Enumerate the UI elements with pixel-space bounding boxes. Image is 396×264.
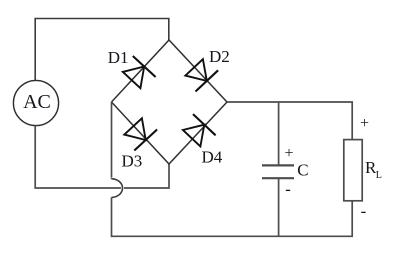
wire RL bottom: [351, 201, 353, 237]
wire left vertex down (lower part): [111, 197, 113, 237]
wire top from AC to bridge top: [35, 19, 169, 81]
resistor RL body: [344, 140, 362, 201]
svg-text:D2: D2: [209, 47, 230, 66]
wire capacitor bottom branch: [278, 178, 280, 236]
svg-text:-: -: [361, 202, 367, 221]
wire capacitor top branch: [278, 102, 280, 165]
wire bridge right vertex to RL top: [227, 102, 352, 140]
svg-text:D3: D3: [122, 152, 143, 171]
diode D4: [183, 114, 216, 146]
svg-text:D4: D4: [202, 148, 223, 167]
svg-text:AC: AC: [23, 91, 51, 113]
wire left vertex down (upper part): [111, 102, 113, 179]
svg-text:-: -: [285, 180, 291, 199]
svg-text:+: +: [360, 115, 369, 132]
diode D2: [185, 59, 218, 91]
wire bottom bus: [111, 235, 353, 237]
diode D3: [124, 118, 157, 150]
diode D1: [123, 56, 156, 88]
bridge diamond wires: [112, 40, 228, 164]
AC source U1: [13, 80, 58, 125]
capacitor C plates: [262, 164, 294, 166]
wire AC bottom to bridge bottom vertex: [35, 126, 169, 188]
svg-text:D1: D1: [108, 48, 129, 67]
svg-text:L: L: [376, 170, 382, 181]
wire hop over AC bottom wire: [112, 179, 123, 198]
svg-text:C: C: [297, 161, 308, 180]
svg-text:+: +: [284, 145, 293, 162]
